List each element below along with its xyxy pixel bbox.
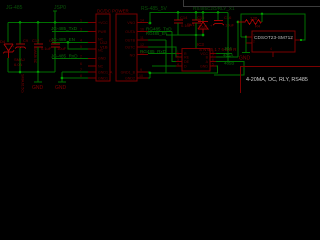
svg-text:6: 6	[212, 58, 214, 62]
wire gnd subrail y35	[166, 34, 203, 36]
svg-text:7: 7	[212, 54, 214, 58]
svg-text:11: 11	[140, 36, 144, 40]
svg-text:GND1_A: GND1_A	[98, 71, 113, 75]
tvs array box CDSOT23-SM712	[252, 31, 295, 52]
svg-text:+VCC: +VCC	[98, 21, 108, 25]
svg-text:OUTC: OUTC	[125, 46, 136, 50]
svg-text:R4: R4	[255, 24, 261, 29]
node rail C15	[195, 11, 198, 14]
resistor R4	[238, 20, 262, 25]
svg-text:GND: GND	[32, 85, 44, 91]
svg-text:10uF: 10uF	[225, 23, 235, 28]
svg-text:GND: GND	[98, 57, 106, 61]
svg-text:C9: C9	[23, 38, 29, 43]
svg-text:OUTB: OUTB	[125, 39, 136, 43]
wire bottom left rail	[8, 71, 55, 73]
svg-text:GND2: GND2	[125, 77, 135, 81]
wire module gnd left	[58, 72, 90, 82]
svg-text:JSP0: JSP0	[54, 5, 66, 11]
module U12 box right	[116, 14, 137, 81]
wire to SM712 pin1	[241, 36, 252, 38]
svg-text:RS485C2O/RLY_X1: RS485C2O/RLY_X1	[193, 6, 235, 11]
node bottom rail x38	[37, 71, 40, 74]
wire pin14 to rail	[148, 22, 150, 24]
svg-text:7: 7	[80, 68, 82, 72]
wire resistor right up	[261, 14, 263, 22]
svg-text:120: 120	[250, 16, 258, 21]
svg-text:OUTA: OUTA	[125, 30, 135, 34]
node SM712 right	[300, 39, 302, 41]
wire TxD2	[148, 31, 172, 33]
wire C11 to bottom rail	[54, 47, 56, 72]
node rail x38	[37, 21, 40, 24]
svg-text:D: D	[184, 65, 187, 69]
svg-text:1: 1	[253, 34, 255, 38]
svg-text:5: 5	[212, 63, 214, 67]
pin names IC right	[200, 52, 209, 69]
svg-text:4-20MA, OC, RLY, RS485: 4-20MA, OC, RLY, RS485	[246, 77, 308, 83]
svg-text:3: 3	[80, 28, 82, 32]
capacitor C14	[177, 13, 179, 21]
node rail TVS	[202, 11, 205, 14]
svg-text:8: 8	[80, 74, 82, 78]
svg-text:RV1: RV1	[187, 22, 195, 27]
pin names module left column	[98, 21, 113, 81]
wire B	[216, 22, 238, 57]
node rail C14	[177, 11, 180, 14]
wire EN branch to pin5	[68, 43, 90, 50]
pin stubs SM712	[246, 37, 301, 57]
svg-text:RE: RE	[184, 56, 190, 60]
node rail x55	[54, 21, 57, 24]
svg-text:GND1_B: GND1_B	[121, 71, 136, 75]
pin numbers IC	[177, 50, 214, 67]
svg-text:12: 12	[140, 43, 144, 47]
wire 5V rail	[150, 13, 228, 24]
wire top right loop	[241, 14, 305, 40]
wire left top rail	[8, 22, 90, 24]
svg-text:C15: C15	[197, 15, 205, 20]
node loop pin1 tap	[245, 36, 248, 39]
title block border	[241, 67, 320, 94]
node loop x262	[261, 13, 264, 16]
svg-text:3: 3	[177, 58, 179, 62]
pin stubs IC left	[176, 54, 182, 67]
pin numbers SM712	[253, 34, 293, 52]
wire C12 to bottom rail	[37, 47, 39, 72]
svg-text:CDSOT23-SM712: CDSOT23-SM712	[254, 35, 293, 41]
node EN x68	[67, 41, 70, 44]
node gnd loop	[149, 72, 152, 75]
power port stem JSP0	[53, 11, 57, 23]
wire RxD	[52, 58, 90, 60]
svg-text:JG-485_RxD: JG-485_RxD	[51, 54, 78, 59]
svg-text:DE: DE	[184, 60, 190, 64]
svg-text:NC: NC	[98, 38, 104, 42]
svg-text:RS-485_5V: RS-485_5V	[141, 6, 168, 12]
node x62 gnd	[61, 77, 64, 80]
svg-text:JG4: JG4	[224, 46, 232, 51]
wire TxD2 down to DE	[172, 32, 182, 62]
svg-text:0.1uF: 0.1uF	[41, 46, 52, 51]
svg-text:GND: GND	[200, 65, 208, 69]
wire RxD2 to R	[148, 53, 182, 55]
svg-text:5: 5	[80, 45, 82, 49]
transceiver IC3 box	[182, 49, 210, 72]
wire gnd drop	[34, 72, 42, 82]
node y35 TVS	[202, 34, 205, 37]
svg-text:4: 4	[270, 47, 272, 51]
svg-text:SMAJ6.5C: SMAJ6.5C	[33, 47, 37, 64]
pin stubs left of module	[88, 23, 96, 79]
svg-text:JG-485_TxD: JG-485_TxD	[51, 26, 78, 31]
capacitor C16 (polarized)	[217, 13, 219, 21]
svg-text:JG-485_EN: JG-485_EN	[51, 37, 75, 42]
svg-text:NC: NC	[98, 65, 104, 69]
svg-text:10: 10	[139, 74, 143, 78]
wire to D pin	[152, 65, 182, 67]
svg-text:2: 2	[80, 55, 82, 59]
svg-text:4: 4	[80, 39, 82, 43]
node y35 x196	[195, 34, 198, 37]
svg-text:3: 3	[291, 37, 293, 41]
svg-text:10uF: 10uF	[57, 46, 67, 51]
svg-text:DC/DC POWER: DC/DC POWER	[97, 9, 129, 14]
pin stubs right of module	[137, 23, 148, 79]
pin names IC left	[184, 52, 190, 69]
svg-text:RG485_EN: RG485_EN	[146, 31, 167, 36]
svg-text:GND: GND	[239, 56, 251, 62]
node 5V pin14	[149, 22, 152, 25]
svg-text:NC: NC	[98, 49, 104, 53]
pin names module right column	[121, 21, 136, 81]
svg-text:2: 2	[177, 54, 179, 58]
capacitor C15	[195, 13, 197, 21]
node rail x20	[19, 21, 22, 24]
wire IC gnd loop	[148, 66, 218, 78]
node rail C16	[217, 11, 220, 14]
svg-text:D4: D4	[0, 39, 6, 44]
svg-text:6: 6	[80, 62, 82, 66]
wire TVS to y35	[202, 33, 204, 35]
svg-text:VNO: VNO	[127, 21, 135, 25]
node resistor tap on B	[237, 21, 240, 24]
svg-text:PWR: PWR	[98, 30, 107, 34]
capacitor C9 (polarized)	[19, 23, 21, 45]
svg-text:GND1: GND1	[98, 77, 108, 81]
wire A	[214, 62, 244, 76]
wire EN	[52, 42, 90, 44]
wire TxD	[52, 31, 90, 33]
svg-text:14: 14	[140, 19, 144, 23]
wire SM712 pin2 to gnd	[242, 37, 252, 53]
svg-text:C14: C14	[180, 15, 188, 20]
svg-text:SMAJ6.5CA: SMAJ6.5CA	[21, 74, 25, 93]
wire C9 to bottom rail	[19, 48, 21, 72]
wire rail corner down x228	[227, 13, 229, 63]
capacitor C11	[54, 23, 56, 45]
zener diode D4	[3, 44, 14, 58]
wire OUTC to RE	[148, 47, 182, 57]
module U12 box left	[96, 14, 110, 81]
pin stubs IC right	[210, 54, 216, 67]
svg-text:1: 1	[80, 19, 82, 23]
svg-text:2: 2	[253, 40, 255, 44]
wire D4 anode to bottom rail	[7, 58, 9, 72]
capacitor C12	[37, 23, 39, 45]
wire VCC IC right	[216, 53, 232, 55]
wire left rail down to D4	[7, 23, 9, 43]
sheet frame line top-right (dim gray)	[184, 0, 320, 7]
svg-text:4: 4	[177, 63, 179, 67]
svg-text:16: 16	[140, 28, 144, 32]
wire x196 down	[195, 35, 197, 49]
node bottom rail x20	[19, 71, 22, 74]
tvs diode RV1	[202, 13, 204, 22]
pin numbers left	[80, 19, 82, 79]
svg-text:NO: NO	[130, 54, 136, 58]
wire pin11 down	[148, 40, 166, 73]
pin numbers right	[139, 19, 144, 79]
svg-text:9: 9	[140, 68, 142, 72]
svg-text:GND: GND	[55, 85, 67, 91]
svg-text:JG-485: JG-485	[6, 5, 23, 11]
svg-text:C12: C12	[32, 38, 40, 43]
svg-text:6.0A: 6.0A	[14, 62, 23, 67]
